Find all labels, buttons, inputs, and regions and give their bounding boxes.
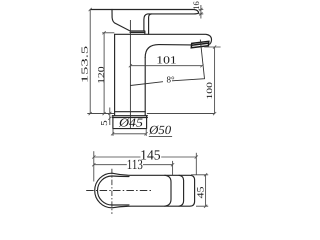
svg-text:145: 145 <box>140 149 161 164</box>
svg-text:16: 16 <box>191 1 201 10</box>
svg-text:153.5: 153.5 <box>80 45 90 83</box>
svg-text:8°: 8° <box>167 75 176 85</box>
svg-text:120: 120 <box>96 66 106 84</box>
svg-text:113: 113 <box>127 158 143 173</box>
svg-text:Ø45: Ø45 <box>118 115 143 129</box>
svg-text:5: 5 <box>99 120 109 126</box>
svg-text:100: 100 <box>205 82 214 100</box>
svg-text:Ø50: Ø50 <box>148 123 172 137</box>
svg-text:101: 101 <box>156 55 177 67</box>
svg-text:45: 45 <box>197 186 207 198</box>
